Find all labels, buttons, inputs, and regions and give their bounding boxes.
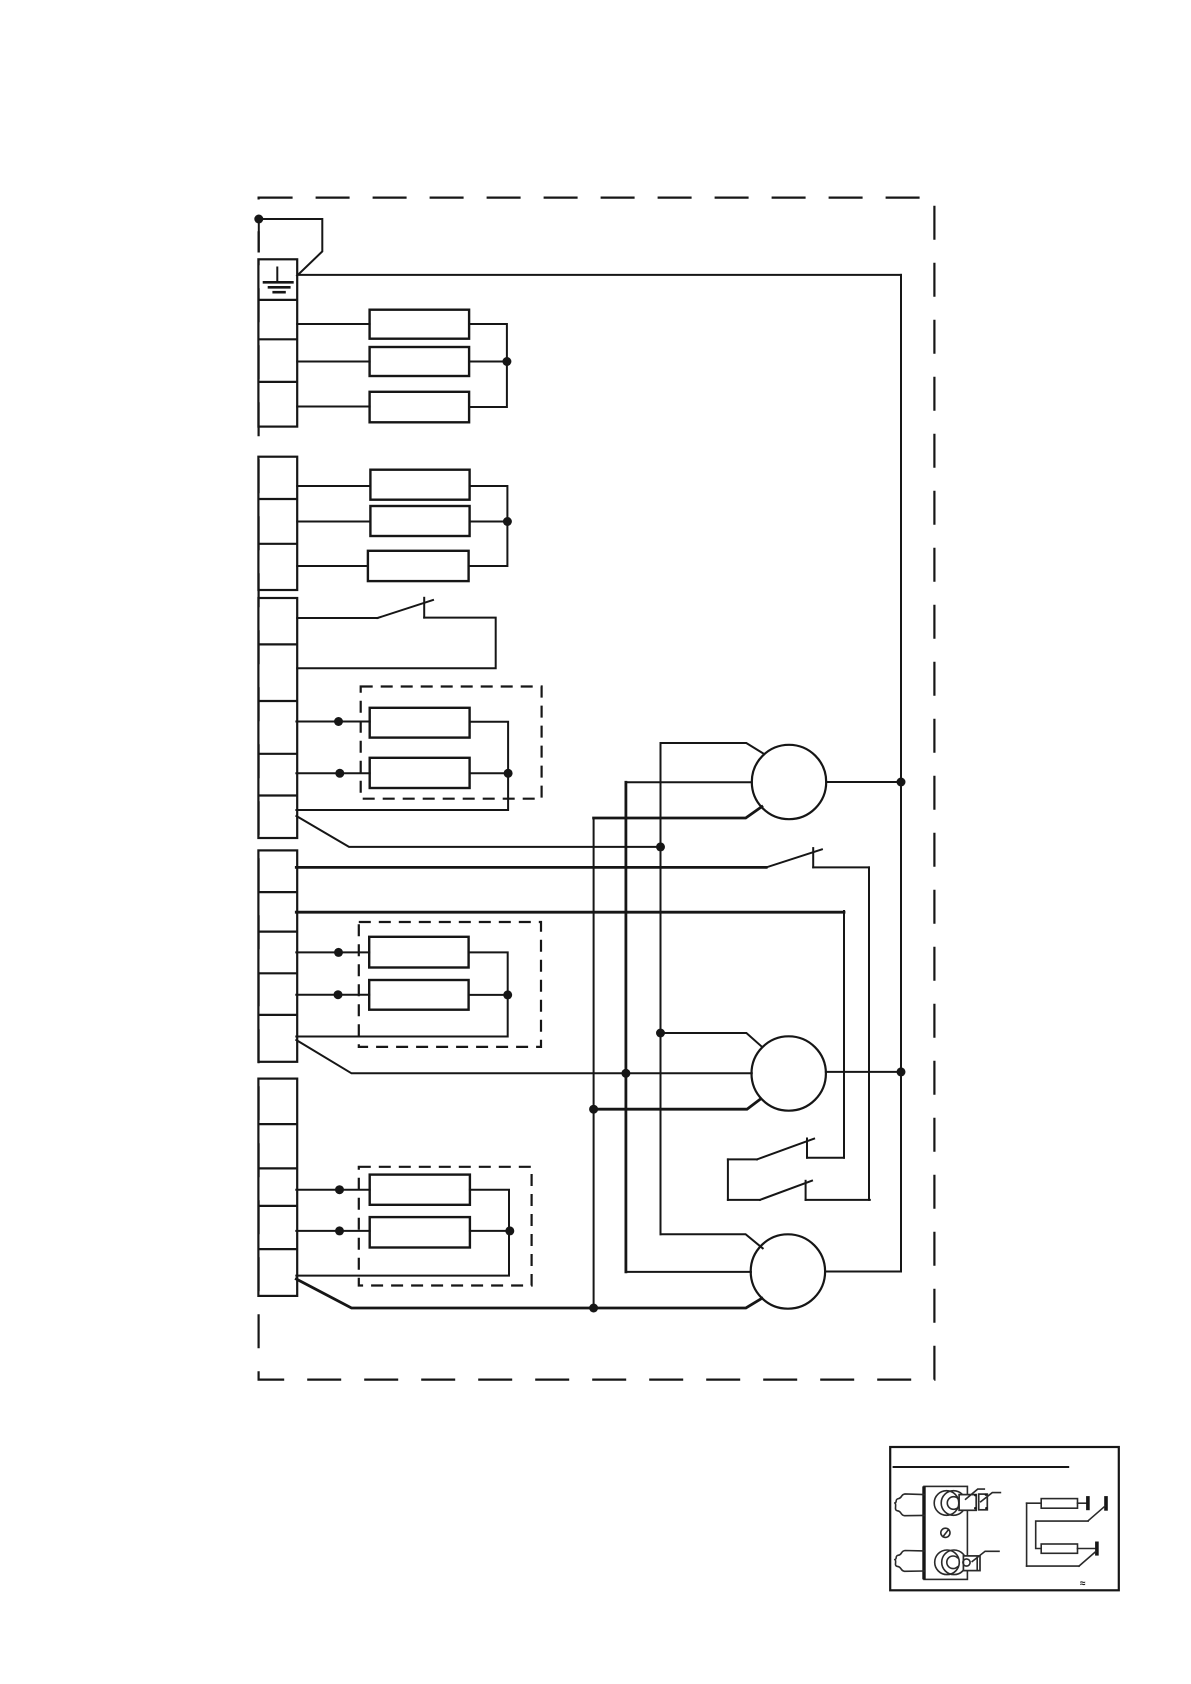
wire R14 to electrode xyxy=(1078,1548,1096,1550)
terminal block TB1 xyxy=(258,259,297,426)
node B junction dot xyxy=(503,517,512,526)
switch S1 oven thermostat xyxy=(297,598,496,669)
electrode plate E1 xyxy=(1086,1496,1090,1510)
resistor R9 element xyxy=(369,937,468,968)
node splice dot D1 xyxy=(334,948,343,957)
node H junction dot end of vertical V1 xyxy=(589,1304,598,1313)
element group D dashed enclosure xyxy=(359,922,541,1047)
node splice dot D2 xyxy=(334,990,343,999)
lamp L2 body xyxy=(935,1550,967,1575)
terminal block TB4 xyxy=(258,850,297,1061)
element group C dashed enclosure xyxy=(361,687,542,799)
pointer line to terminal xyxy=(981,1493,1001,1502)
node M2 output junction dot xyxy=(897,1067,906,1076)
cable lower with break xyxy=(895,1551,924,1572)
wire S3 feed vertical xyxy=(843,911,845,1158)
resistor R13 xyxy=(1041,1499,1077,1509)
motor M1 xyxy=(752,745,826,819)
wire V3 to motor M2 top input xyxy=(661,1033,762,1046)
wire V3 to motor M3 top input xyxy=(661,1234,763,1248)
switch S2 xyxy=(766,848,869,867)
resistor R5 heating element xyxy=(370,506,469,536)
resistor R3 heating element xyxy=(370,392,470,423)
wire TB3.4 to R8 xyxy=(296,772,369,774)
wire TB2.1 to R4 xyxy=(297,485,370,487)
igniter circuit left rail xyxy=(1026,1503,1028,1566)
inset title rule xyxy=(894,1466,1069,1468)
resistor R7 grill element xyxy=(370,708,470,738)
wire group B output bus xyxy=(469,486,508,566)
node A junction dot xyxy=(502,357,511,366)
wire TB2.3 to R6 xyxy=(297,565,368,567)
wire V1 to motor M2 bottom input xyxy=(594,1099,761,1109)
wire TB1.4 to R3 xyxy=(297,406,369,408)
wire N1 stub down xyxy=(258,219,260,252)
wire TB2.2 to R5 xyxy=(297,521,370,523)
ground symbol xyxy=(264,268,292,293)
resistor R10 element xyxy=(369,980,468,1010)
resistor R1 heating element xyxy=(370,310,470,339)
cable upper with break xyxy=(895,1494,924,1516)
node V3 branch dot xyxy=(656,1029,665,1038)
node G junction dot xyxy=(505,1226,514,1235)
wire TB1.3 to R2 xyxy=(297,361,369,363)
wire TB4.2 to switch S3 xyxy=(296,911,844,914)
node splice dot E1 xyxy=(335,1185,344,1194)
wire V2 to motor M1 mid input xyxy=(626,781,752,783)
node E junction dot xyxy=(503,990,512,999)
resistor R12 element xyxy=(370,1217,470,1247)
wire R13 to electrode gap xyxy=(1078,1502,1087,1504)
wire blade return loop xyxy=(1036,1521,1088,1548)
resistor R6 heating element xyxy=(368,551,469,581)
element group E dashed enclosure xyxy=(359,1167,532,1286)
wire V1 to motor M1 bottom input xyxy=(594,807,762,818)
terminal block TB3 xyxy=(258,598,297,838)
wire group D output bus xyxy=(296,952,507,1036)
wire N1 to line L bus xyxy=(259,219,901,275)
wire TB4.3 to R9 xyxy=(296,951,369,953)
wire motor M3 output xyxy=(825,1271,901,1273)
wire V3 to motor M1 top input xyxy=(661,743,764,754)
node splice dot E2 xyxy=(335,1226,344,1235)
lamp L1 terminal xyxy=(959,1494,987,1511)
resistor R11 element xyxy=(370,1175,470,1205)
lamp L1 body xyxy=(934,1491,966,1516)
switch S3 xyxy=(728,1139,844,1160)
wire TB4 corner diagonal to phase line 2 xyxy=(296,1040,752,1073)
electrode plate E2 xyxy=(1104,1496,1108,1511)
node M1 output junction dot xyxy=(897,778,906,787)
wire group C output bus xyxy=(296,722,508,810)
lamp L2 terminal xyxy=(963,1556,980,1571)
motor M2 xyxy=(752,1036,826,1110)
motor M3 xyxy=(751,1234,825,1308)
wire group A output bus xyxy=(469,324,507,407)
wire TB3 corner diagonal to phase line 3 xyxy=(296,816,660,847)
mounting hole xyxy=(941,1528,950,1537)
node splice dot C2 xyxy=(335,769,344,778)
svg-text:≈: ≈ xyxy=(1080,1579,1086,1590)
terminal block TB2 xyxy=(258,457,297,590)
wire TB3.3 to R7 xyxy=(296,721,369,723)
wire V2 to motor M3 mid input xyxy=(626,1271,751,1273)
wire line bus vertical right xyxy=(900,275,902,1272)
node C junction dot xyxy=(504,769,513,778)
switch S4 xyxy=(728,1181,870,1200)
wire rail to R13 xyxy=(1027,1502,1042,1504)
lamp bracket plate xyxy=(924,1486,967,1579)
resistor R14 xyxy=(1041,1544,1077,1553)
pointer line to lamp L1 xyxy=(966,1489,985,1499)
node V1 branch dot xyxy=(589,1105,598,1114)
switch blade from E3 xyxy=(1079,1552,1096,1567)
wire S3 to S4 link xyxy=(727,1159,729,1200)
resistor R8 grill element xyxy=(370,758,470,788)
wire TB4.1 to switch S2 xyxy=(296,866,766,869)
wire motor M2 output xyxy=(826,1071,901,1073)
resistor R4 heating element xyxy=(370,470,469,500)
node F junction dot on vertical V2 xyxy=(621,1069,630,1078)
wire bottom return to rail xyxy=(1027,1565,1079,1567)
electrode plate E3 xyxy=(1095,1542,1099,1556)
wire TB1.2 to R1 xyxy=(297,323,369,325)
pointer line to lamp L2 xyxy=(972,1551,999,1561)
wire TB5.4 to R12 xyxy=(296,1230,369,1232)
node N1 supply junction dot xyxy=(254,215,263,224)
terminal block TB5 xyxy=(258,1079,297,1296)
wire group E output bus xyxy=(296,1190,509,1276)
switch blade from E2 xyxy=(1088,1506,1105,1521)
wire vertical V3 xyxy=(660,743,662,1234)
wire vertical V2 xyxy=(625,782,628,1272)
wire TB5.3 to R11 xyxy=(296,1189,369,1191)
appliance boundary dashed outline xyxy=(259,198,935,1380)
detail inset frame xyxy=(890,1447,1119,1590)
wire motor M1 output xyxy=(826,781,901,783)
wire TB4.4 to R10 xyxy=(296,994,369,996)
node splice dot C1 xyxy=(334,717,343,726)
wire S2 output down to S4 xyxy=(868,867,870,1200)
node D junction dot on vertical V3 xyxy=(656,842,665,851)
resistor R2 heating element xyxy=(370,347,470,376)
wire vertical V1 xyxy=(593,818,595,1308)
wire TB5 corner diagonal to phase line 1 xyxy=(296,1279,762,1308)
